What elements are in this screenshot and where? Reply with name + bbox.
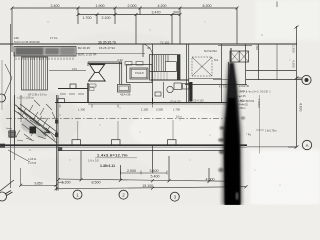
svg-text:3.470: 3.470 [152,11,161,15]
svg-text:1.8x1.75xx: 1.8x1.75xx [265,129,277,132]
svg-text:1.4x3.6=12.7m: 1.4x3.6=12.7m [97,154,128,158]
svg-text:5x1: 5x1 [214,58,219,62]
svg-text:3.25A 1: 3.25A 1 [238,107,247,110]
svg-text:71-152: 71-152 [160,41,170,45]
svg-text:36.35.35.76: 36.35.35.76 [98,41,116,45]
svg-text:2.100: 2.100 [102,16,111,20]
svg-text:9.850: 9.850 [35,182,43,186]
svg-text:2.200: 2.200 [292,45,296,53]
svg-text:2.000: 2.000 [127,169,136,173]
svg-text:4.600: 4.600 [299,103,303,112]
svg-text:1.900: 1.900 [96,4,105,8]
svg-text:C2-4 120: C2-4 120 [193,99,204,103]
svg-text:8.200: 8.200 [203,4,212,8]
svg-text:5x17m=2.95 30x8/100: 5x17m=2.95 30x8/100 [14,40,40,44]
svg-text:1.200: 1.200 [62,180,71,184]
svg-text:1.6 x 3.5: 1.6 x 3.5 [88,159,99,163]
svg-text:x 3.5 R: x 3.5 R [28,161,36,165]
svg-text:5x7x2=9H: 5x7x2=9H [204,49,217,53]
svg-text:2.500: 2.500 [156,107,163,111]
svg-text:2.5x1.8/mx3=2.952B 1: 2.5x1.8/mx3=2.952B 1 [236,90,271,93]
svg-text:16 m: 16 m [176,115,182,119]
svg-text:1.300: 1.300 [78,107,85,111]
svg-text:5.400: 5.400 [151,175,160,179]
svg-text:8.500: 8.500 [92,180,101,184]
svg-text:O2-4 120: O2-4 120 [170,100,181,104]
svg-text:* Fu: * Fu [246,133,252,137]
svg-text:F2 736: F2 736 [219,85,228,89]
svg-text:2.9x0.45: 2.9x0.45 [239,84,250,88]
svg-text:1.700: 1.700 [83,16,92,20]
svg-text:A: A [306,143,309,148]
svg-text:1.100: 1.100 [141,107,148,111]
svg-text:3.400: 3.400 [150,169,159,173]
svg-text:3 FL: 3 FL [72,67,78,71]
svg-text:17 FL: 17 FL [50,36,58,40]
svg-text:1.49>1.11: 1.49>1.11 [100,164,115,168]
svg-text:300: 300 [173,11,179,15]
svg-text:36: 36 [147,46,151,50]
svg-text:700: 700 [255,45,259,50]
svg-text:1.18.11: 1.18.11 [28,157,37,161]
svg-text:16b: 16b [14,36,19,40]
svg-text:4.300: 4.300 [292,60,296,68]
svg-text:B2FL 2.15 7R: B2FL 2.15 7R [78,53,97,57]
svg-text:42A+36: 42A+36 [120,93,131,97]
svg-text:4.32: 4.32 [117,58,123,62]
svg-text:15.25 17.94: 15.25 17.94 [99,46,115,50]
svg-text:15.100: 15.100 [142,184,153,188]
svg-text:4.5A5x2: 4.5A5x2 [257,99,260,108]
svg-text:B2 46.35: B2 46.35 [78,46,90,50]
svg-text:2.000: 2.000 [128,4,137,8]
svg-text:9.5x0.8: 9.5x0.8 [135,71,144,75]
svg-text:2.400: 2.400 [51,4,60,8]
svg-text:4.200: 4.200 [158,4,167,8]
svg-text:x 2.3 x 1.05 xx: x 2.3 x 1.05 xx [17,96,34,100]
svg-text:1.700: 1.700 [173,107,180,111]
svg-text:4.000: 4.000 [206,178,215,182]
